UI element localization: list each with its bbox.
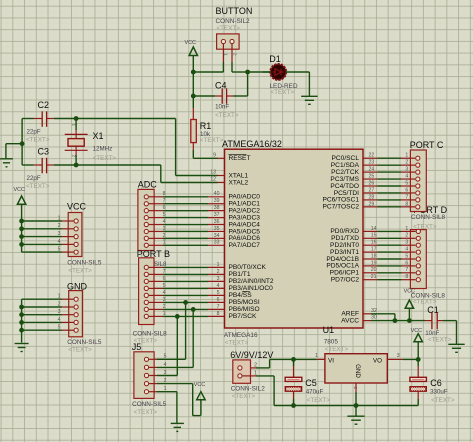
svg-text:CONN-SIL5: CONN-SIL5 xyxy=(67,339,102,346)
wire PC6 to PORT C pin 7 xyxy=(363,199,415,201)
svg-text:VCC: VCC xyxy=(404,289,415,295)
wire VCC header pin 1 xyxy=(22,220,74,222)
svg-text:PB7/SCK: PB7/SCK xyxy=(229,313,257,320)
pin numbers ADC row 4 xyxy=(163,212,220,218)
pin numbers ADC row 5 xyxy=(163,219,220,225)
svg-text:6: 6 xyxy=(405,260,408,266)
svg-text:<TEXT>: <TEXT> xyxy=(134,409,158,416)
svg-text:X1: X1 xyxy=(93,131,104,141)
pin numbers PORT B row 7 xyxy=(163,304,220,310)
svg-text:19: 19 xyxy=(371,260,377,266)
wire PD5 to PORT D pin 6 xyxy=(363,265,416,267)
svg-text:2: 2 xyxy=(353,387,358,390)
label CONN-SIL8 (PORT B) xyxy=(133,330,168,344)
wire VCC header pin 2 xyxy=(22,228,74,230)
svg-text:10nF: 10nF xyxy=(215,104,229,111)
pin numbers PORT D row 8 xyxy=(371,274,409,280)
svg-text:AVCC: AVCC xyxy=(341,317,359,324)
svg-text:28: 28 xyxy=(369,194,375,200)
svg-text:C2: C2 xyxy=(38,100,50,110)
wire PORT B pin 6 to PB2 xyxy=(149,280,225,282)
pin numbers PORT C row 3 xyxy=(369,167,409,173)
wire J5 pins 5-3 to PB columns xyxy=(157,359,193,375)
wire J5 pin 1 to ground xyxy=(157,392,177,424)
svg-text:7805: 7805 xyxy=(324,338,339,345)
wire PORT B pin 4 to PB4 xyxy=(149,294,225,296)
svg-text:GND: GND xyxy=(67,281,88,291)
pin numbers PORT C row 6 xyxy=(369,187,409,193)
svg-text:27: 27 xyxy=(369,187,375,193)
junction VCC column xyxy=(19,226,24,231)
wire GND header pin 5 xyxy=(22,329,74,331)
pin numbers PORT B row 4 xyxy=(163,283,220,289)
svg-text:8: 8 xyxy=(217,311,220,317)
wire PC0 to PORT C pin 1 xyxy=(363,157,415,159)
svg-text:PB0/T0/XCK: PB0/T0/XCK xyxy=(229,264,267,271)
svg-text:30: 30 xyxy=(371,315,377,321)
junction C5/ground bus xyxy=(291,403,296,408)
capacitor C6 330uF xyxy=(430,378,455,404)
wire ADC pin 3 to PA5 xyxy=(149,230,225,232)
svg-text:15: 15 xyxy=(371,233,377,239)
svg-text:<TEXT>: <TEXT> xyxy=(68,267,92,274)
svg-text:24: 24 xyxy=(369,167,375,173)
svg-text:<TEXT>: <TEXT> xyxy=(68,347,92,354)
pin numbers ADC row 3 xyxy=(163,205,220,211)
svg-text:PC1/SDA: PC1/SDA xyxy=(331,162,360,169)
connector VCC CONN-SIL5 xyxy=(58,202,102,275)
svg-text:1: 1 xyxy=(163,240,166,246)
svg-text:CONN-SIL8: CONN-SIL8 xyxy=(411,214,446,221)
svg-text:PC3/TMS: PC3/TMS xyxy=(330,176,359,183)
svg-text:<TEXT>: <TEXT> xyxy=(431,397,455,404)
svg-text:C3: C3 xyxy=(38,147,50,157)
wire PORT B pin 5 to PB3 xyxy=(149,287,225,289)
pin numbers PORT C row 7 xyxy=(369,194,409,200)
junction VCC column xyxy=(19,242,24,247)
wire input negative to ground bus xyxy=(243,376,275,406)
svg-text:8: 8 xyxy=(405,201,408,207)
svg-text:1: 1 xyxy=(71,124,76,127)
svg-text:1: 1 xyxy=(405,153,408,159)
svg-text:VCC: VCC xyxy=(67,202,87,212)
svg-text:PC0/SCL: PC0/SCL xyxy=(332,155,360,162)
resistor R1 10k xyxy=(191,108,224,144)
pin numbers PORT B row 6 xyxy=(163,297,220,303)
wire GND header pin 3 xyxy=(22,314,74,316)
svg-text:VCC: VCC xyxy=(14,187,25,193)
pin numbers ADC row 1 xyxy=(163,191,220,197)
svg-text:PORT C: PORT C xyxy=(410,140,444,150)
svg-text:PB3/AIN1/OC0: PB3/AIN1/OC0 xyxy=(229,285,274,292)
label CONN-SIL8 (PORT D) xyxy=(411,293,446,306)
svg-text:1: 1 xyxy=(217,262,220,268)
wire ADC pin 7 to PA1 xyxy=(149,203,225,205)
junction left leg/ground xyxy=(20,141,25,146)
power flag VCC (J5) xyxy=(194,382,205,416)
wire PC2 to PORT C pin 3 xyxy=(363,171,415,173)
svg-text:7: 7 xyxy=(163,198,166,204)
svg-text:PA7/ADC7: PA7/ADC7 xyxy=(229,242,261,249)
wire AVCC to VCC and C1 xyxy=(363,320,425,322)
svg-text:6: 6 xyxy=(217,297,220,303)
svg-text:12: 12 xyxy=(210,177,216,183)
svg-text:34: 34 xyxy=(214,233,220,239)
svg-text:<TEXT>: <TEXT> xyxy=(325,346,349,353)
pin numbers PORT D row 4 xyxy=(371,247,409,253)
svg-text:4: 4 xyxy=(405,247,408,253)
ground (J5) xyxy=(171,423,184,431)
pin numbers PORT C row 8 xyxy=(369,201,409,207)
svg-text:PD7/OC2: PD7/OC2 xyxy=(331,277,360,284)
svg-text:3: 3 xyxy=(163,297,166,303)
ground (C1) xyxy=(448,344,464,352)
svg-text:29: 29 xyxy=(369,201,375,207)
svg-text:5: 5 xyxy=(217,290,220,296)
wire PC1 to PORT C pin 2 xyxy=(363,164,415,166)
svg-text:<TEXT>: <TEXT> xyxy=(215,112,239,119)
junction C3/X1 xyxy=(74,163,79,168)
svg-text:33: 33 xyxy=(214,240,220,246)
svg-text:7: 7 xyxy=(217,304,220,310)
wire GND header pin 2 xyxy=(22,306,74,308)
svg-text:2: 2 xyxy=(254,362,257,368)
pin numbers PORT B row 3 xyxy=(163,276,220,282)
connector J5 CONN-SIL5 xyxy=(132,342,167,416)
junction GND column xyxy=(19,320,24,325)
pin numbers PORT D row 5 xyxy=(371,253,409,259)
pin numbers ADC row 8 xyxy=(163,240,220,246)
input connector 6V/9V/12V CONN-SIL2 xyxy=(230,350,273,400)
pin numbers PORT D row 2 xyxy=(371,233,409,239)
wire PD1 to PORT D pin 2 xyxy=(363,237,416,239)
wire GND header pin 4 xyxy=(22,321,74,323)
wire PC7 to PORT C pin 8 xyxy=(363,206,415,208)
svg-text:1: 1 xyxy=(405,226,408,232)
svg-text:RESET: RESET xyxy=(229,155,251,162)
svg-text:39: 39 xyxy=(214,198,220,204)
svg-text:1: 1 xyxy=(224,53,229,56)
wire VCC column to C4/R1 node xyxy=(192,72,194,108)
wire J5 pin 2 to VCC flag xyxy=(157,384,201,416)
wire AREF to AVCC node xyxy=(363,314,395,321)
capacitor C2 22pF xyxy=(22,100,76,144)
svg-text:16: 16 xyxy=(371,240,377,246)
svg-text:<TEXT>: <TEXT> xyxy=(428,336,452,343)
junction PB5 xyxy=(183,300,188,305)
svg-text:9: 9 xyxy=(213,152,216,158)
wire PD3 to PORT D pin 4 xyxy=(363,251,416,253)
junction VCC column xyxy=(19,234,24,239)
pin numbers ADC row 7 xyxy=(163,233,220,239)
wire J5 pin 4 xyxy=(149,366,157,368)
svg-text:D1: D1 xyxy=(269,54,281,64)
wire C1 to ground xyxy=(443,321,457,345)
svg-text:4: 4 xyxy=(163,219,166,225)
svg-text:CONN-SIL2: CONN-SIL2 xyxy=(216,18,251,25)
svg-text:<TEXT>: <TEXT> xyxy=(200,137,224,144)
wire node down to C4 right side xyxy=(233,72,248,96)
wire R1 to RESET pin 9 xyxy=(193,143,224,159)
svg-text:VO: VO xyxy=(373,358,382,365)
regulator U1 7805 xyxy=(323,325,388,383)
svg-text:<TEXT>: <TEXT> xyxy=(271,89,295,96)
svg-text:8: 8 xyxy=(405,274,408,280)
svg-text:37: 37 xyxy=(214,212,220,218)
svg-text:PB4/SS: PB4/SS xyxy=(229,292,253,299)
svg-text:ADC: ADC xyxy=(138,179,158,189)
pin numbers PORT D row 1 xyxy=(371,226,409,232)
pin numbers PORT D row 3 xyxy=(371,240,409,246)
svg-text:PC5/TDI: PC5/TDI xyxy=(334,190,359,197)
power flag VCC (left column) xyxy=(14,187,26,252)
wire LED cathode to ground xyxy=(286,72,310,96)
svg-text:3: 3 xyxy=(163,226,166,232)
pin numbers PORT B row 1 xyxy=(154,262,220,268)
svg-text:40: 40 xyxy=(214,191,220,197)
svg-text:22pF: 22pF xyxy=(27,128,41,135)
wire LED anode from button node xyxy=(248,71,271,73)
svg-text:3: 3 xyxy=(217,276,220,282)
wire VCC header pin 4 xyxy=(22,243,74,245)
wire C2 node to XTAL1 xyxy=(76,119,224,176)
wire PORT B pin 1 to PB7 xyxy=(149,315,225,317)
svg-text:7: 7 xyxy=(405,194,408,200)
wire PD2 to PORT D pin 3 xyxy=(363,244,416,246)
pin numbers PORT B row 5 xyxy=(163,290,220,296)
capacitor C3 22pF xyxy=(22,147,76,191)
pin numbers PORT B row 8 xyxy=(163,311,220,317)
ground (LED) xyxy=(301,96,317,104)
svg-text:12MHz: 12MHz xyxy=(93,146,113,153)
svg-text:2: 2 xyxy=(405,160,408,166)
wire PB6 to J5 pin 4 xyxy=(192,309,194,367)
svg-text:13: 13 xyxy=(210,170,216,176)
connector PORT D CONN-SIL8 xyxy=(410,214,445,288)
svg-text:330uF: 330uF xyxy=(430,389,448,396)
junction GND column xyxy=(19,305,24,310)
wire PORT B pin 7 to PB1 xyxy=(149,273,225,275)
wire VCC node to button pin 1 xyxy=(193,62,223,72)
svg-text:6: 6 xyxy=(163,276,166,282)
svg-text:<TEXT>: <TEXT> xyxy=(217,25,241,32)
junction AREF/AVCC xyxy=(393,318,398,323)
wire input to VI xyxy=(243,359,325,368)
svg-text:PB6/MISO: PB6/MISO xyxy=(229,306,260,313)
svg-text:SIL8: SIL8 xyxy=(154,262,167,268)
svg-text:CONN-SIL2: CONN-SIL2 xyxy=(231,385,266,392)
svg-text:22pF: 22pF xyxy=(27,175,41,182)
junction C2/X1 xyxy=(74,116,79,121)
svg-text:CONN-SIL5: CONN-SIL5 xyxy=(132,401,167,408)
svg-text:17: 17 xyxy=(371,247,377,253)
wire GND column xyxy=(21,299,23,342)
wire crystal branch xyxy=(75,119,77,166)
ground (GND header) xyxy=(15,344,29,352)
ground bus wire xyxy=(274,405,418,407)
wire ADC pin 5 to PA3 xyxy=(149,217,225,219)
wire button pin 2 to LED node xyxy=(232,62,248,72)
svg-text:6: 6 xyxy=(163,205,166,211)
svg-text:PC6/TOSC1: PC6/TOSC1 xyxy=(322,197,359,204)
svg-text:470uF: 470uF xyxy=(306,389,324,396)
junction C4/VCC xyxy=(191,94,196,99)
svg-text:3: 3 xyxy=(397,353,400,359)
svg-text:ATMEGA16/32: ATMEGA16/32 xyxy=(222,139,282,149)
svg-text:20: 20 xyxy=(371,267,377,273)
svg-text:2: 2 xyxy=(71,155,76,158)
svg-text:CONN-SIL5: CONN-SIL5 xyxy=(67,259,102,266)
svg-text:7: 7 xyxy=(405,267,408,273)
capacitor C5 470uF xyxy=(305,378,330,404)
svg-text:<TEXT>: <TEXT> xyxy=(26,183,50,190)
junction VO/C6/VCC xyxy=(416,357,421,362)
svg-text:3: 3 xyxy=(405,240,408,246)
junction AVCC/VCC flag xyxy=(407,318,412,323)
button connector J? CONN-SIL2 (BUTTON) xyxy=(216,6,253,62)
svg-text:18: 18 xyxy=(371,253,377,259)
wire VO to VCC node xyxy=(387,358,418,360)
capacitor C1 10nF xyxy=(425,305,452,344)
wire J5 pin 1 xyxy=(149,391,157,393)
connector PORT B SIL8 xyxy=(137,249,170,325)
ground (PSU) xyxy=(355,406,357,417)
pin numbers PORT C row 4 xyxy=(369,173,409,179)
svg-text:5: 5 xyxy=(405,180,408,186)
svg-text:14: 14 xyxy=(371,226,377,232)
svg-text:25: 25 xyxy=(369,173,375,179)
pin numbers PORT D row 6 xyxy=(371,260,409,266)
wire PD7 to PORT D pin 8 xyxy=(363,279,416,281)
svg-text:5: 5 xyxy=(163,212,166,218)
svg-text:4: 4 xyxy=(217,283,220,289)
svg-text:2: 2 xyxy=(163,304,166,310)
svg-text:VI: VI xyxy=(328,358,334,365)
wire PORT B pin 8 to PB0 xyxy=(149,266,225,268)
microcontroller U? ATMEGA16/32 xyxy=(222,139,363,346)
svg-text:PB1/T1: PB1/T1 xyxy=(229,271,251,278)
svg-text:PC4/TDO: PC4/TDO xyxy=(330,183,359,190)
svg-text:BUTTON: BUTTON xyxy=(216,6,253,16)
wire PB5 to J5 pin 5 xyxy=(185,302,187,359)
svg-text:36: 36 xyxy=(214,219,220,225)
junction at VCC/button xyxy=(191,70,196,75)
junction GND column xyxy=(19,312,24,317)
MCU right pin names xyxy=(322,155,359,324)
svg-text:2: 2 xyxy=(232,53,237,56)
svg-text:5: 5 xyxy=(163,283,166,289)
wire PORT B pin 3 to PB5 xyxy=(149,301,225,303)
svg-text:<TEXT>: <TEXT> xyxy=(93,155,117,162)
svg-text:C5: C5 xyxy=(305,378,317,388)
connector ADC CONN-SIL8 xyxy=(138,179,158,250)
svg-text:6: 6 xyxy=(405,187,408,193)
ground (crystal left) xyxy=(0,159,13,167)
svg-text:6V/9V/12V: 6V/9V/12V xyxy=(230,350,273,360)
svg-text:PC2/TCK: PC2/TCK xyxy=(331,169,359,176)
svg-text:32: 32 xyxy=(371,308,377,314)
wire PC5 to PORT C pin 6 xyxy=(363,192,415,194)
wire GND header pin 1 xyxy=(22,298,74,300)
connector PORT C CONN-SIL8 xyxy=(410,140,444,212)
power flag VCC (top, feeds button) xyxy=(185,40,198,72)
svg-text:7: 7 xyxy=(163,269,166,275)
pin numbers ADC row 2 xyxy=(163,198,220,204)
crystal X1 12MHz xyxy=(65,124,117,162)
svg-text:35: 35 xyxy=(214,226,220,232)
svg-text:2: 2 xyxy=(217,269,220,275)
LED D1 LED-RED xyxy=(263,54,298,96)
junction VCC column xyxy=(19,219,24,224)
wire to left ground xyxy=(6,144,22,159)
pin numbers PORT C row 1 xyxy=(369,153,409,159)
svg-text:8: 8 xyxy=(163,191,166,197)
junction VI/C5 xyxy=(291,357,296,362)
wire VCC header pin 3 xyxy=(22,236,74,238)
wire PD6 to PORT D pin 7 xyxy=(363,272,416,274)
svg-text:ATMEGA16: ATMEGA16 xyxy=(224,332,258,339)
wire ADC pin 8 to PA0 xyxy=(149,196,225,198)
svg-text:26: 26 xyxy=(369,180,375,186)
wire ADC pin 6 to PA2 xyxy=(149,210,225,212)
junction PB7 xyxy=(175,314,180,319)
svg-text:<TEXT>: <TEXT> xyxy=(307,397,331,404)
connector GND CONN-SIL5 xyxy=(58,281,102,353)
wire 7805 GND pin to ground bus xyxy=(353,383,358,406)
svg-text:U1: U1 xyxy=(323,325,335,335)
junction GND column xyxy=(19,328,24,333)
svg-text:CONN-SIL8: CONN-SIL8 xyxy=(133,330,168,337)
svg-text:VCC: VCC xyxy=(411,328,422,334)
svg-text:<TEXT>: <TEXT> xyxy=(26,137,50,144)
svg-text:R1: R1 xyxy=(200,121,212,131)
svg-text:1: 1 xyxy=(315,353,318,359)
wire PD4 to PORT D pin 5 xyxy=(363,258,416,260)
wire J5 pin 5 xyxy=(149,358,157,360)
wire J5 pin 3 xyxy=(149,375,157,377)
pin numbers PORT C row 5 xyxy=(369,180,409,186)
svg-text:22: 22 xyxy=(369,153,375,159)
svg-text:2: 2 xyxy=(405,233,408,239)
svg-text:4: 4 xyxy=(163,290,166,296)
wire ADC pin 1 to PA7 xyxy=(149,244,225,246)
svg-text:2: 2 xyxy=(163,233,166,239)
svg-text:J5: J5 xyxy=(132,342,142,352)
svg-text:1: 1 xyxy=(163,311,166,317)
svg-text:C6: C6 xyxy=(430,378,442,388)
junction button/LED node xyxy=(245,70,250,75)
capacitor C4 10nF xyxy=(193,81,239,119)
svg-text:23: 23 xyxy=(369,160,375,166)
svg-text:PB5/MOSI: PB5/MOSI xyxy=(229,299,260,306)
svg-text:XTAL1: XTAL1 xyxy=(229,172,249,179)
wire PB7 to J5 pin 3 xyxy=(176,316,178,375)
wire VCC header pin 5 xyxy=(22,251,74,253)
junction ground bus/7805 xyxy=(354,403,359,408)
svg-text:VCC: VCC xyxy=(185,40,196,46)
svg-text:XTAL2: XTAL2 xyxy=(229,179,249,186)
pin numbers ADC row 6 xyxy=(163,226,220,232)
svg-text:4: 4 xyxy=(405,173,408,179)
wire C2/C3 left leg xyxy=(21,119,23,166)
wire ADC pin 4 to PA4 xyxy=(149,224,225,226)
pin numbers PORT D row 7 xyxy=(371,267,409,273)
svg-text:5: 5 xyxy=(405,253,408,259)
power flag VCC (AVCC) xyxy=(404,289,415,321)
svg-text:VCC: VCC xyxy=(194,382,205,388)
wire C3 node to XTAL2 xyxy=(76,165,224,183)
power flag VCC (regulator output) xyxy=(411,328,423,360)
